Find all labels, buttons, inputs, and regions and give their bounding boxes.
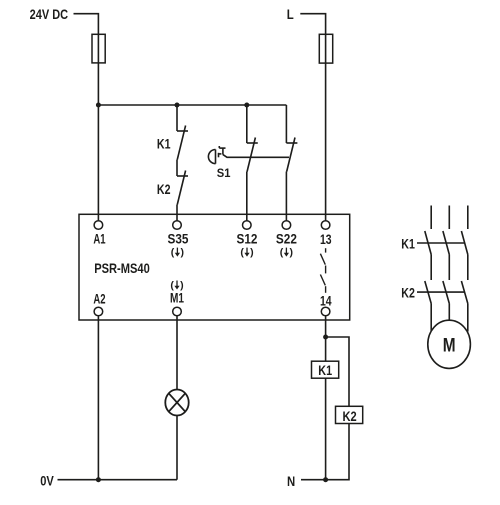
phase line L2 middle [448,255,450,281]
junction node at S35 branch [175,103,180,108]
svg-text:A2: A2 [93,292,105,307]
mechanical link S1 to contacts [223,155,289,158]
wire bus corner to contact S1.2 [285,105,287,143]
svg-text:A1: A1 [93,232,105,247]
svg-text:M: M [443,335,456,357]
wire bus to contact K1 [176,105,178,131]
fuse F1 (24V line) [92,34,105,63]
phase line L1 to motor [430,304,432,332]
terminal M1 [173,307,182,316]
phase line L3 to motor [467,304,469,332]
terminal S22 [282,221,291,230]
wire K2 coil to N bus [326,424,349,480]
junction node at A1 drop [96,103,101,108]
contactor contact K1 phase 1 [425,231,431,255]
wire L to terminal 13 (vertical drop) [300,14,325,221]
contactor contact K2 phase 2 [443,281,449,304]
terminal 14 [321,307,330,316]
fuse F2 (L line) [319,34,332,63]
svg-text:K1: K1 [157,136,171,151]
svg-text:13: 13 [320,232,332,247]
wire 24V horizontal bus [98,104,286,106]
pushbutton S1 (mushroom head actuator) [208,146,225,164]
contact K2 (NO feedback contact) [177,171,188,205]
svg-text:M1: M1 [170,290,184,305]
wire 24V DC to A1 (vertical drop) [74,14,99,221]
terminal 13 [321,221,330,230]
svg-text:K1: K1 [318,363,332,378]
contact K1 (NO feedback contact) [177,126,188,160]
wire 0V bus [58,479,178,481]
phase line L3 upper [467,206,469,230]
terminal A2 [94,307,103,316]
svg-text:(: ( [240,247,244,259]
svg-text:K2: K2 [157,182,171,197]
svg-text:14: 14 [320,293,332,308]
svg-text:N: N [287,474,295,489]
wire S1.1 to terminal S12 [246,172,248,221]
svg-text:S12: S12 [237,232,258,247]
svg-text:PSR-MS40: PSR-MS40 [94,261,150,276]
reset symbol above M1 [170,280,183,292]
contact S1.2 (E-stop NC channel 2) [286,138,297,172]
svg-text:S35: S35 [168,232,189,247]
safety relay body PSR-MS40 [79,214,350,320]
svg-text:): ) [181,247,185,259]
internal safety output contacts 13-14 [320,248,325,293]
coil K2 [336,406,363,423]
wire K1 coil to N bus [325,378,327,480]
wire branch to K2 coil [326,337,349,406]
contactor contact K2 phase 1 [425,281,431,304]
coil K1 [312,361,339,378]
motor M [428,320,471,368]
svg-text:K2: K2 [343,409,357,424]
svg-text:(: ( [280,247,284,259]
svg-text:K1: K1 [401,236,415,251]
contactor contact K2 phase 3 [461,281,467,304]
svg-text:24V DC: 24V DC [30,7,69,22]
contact S1.1 (E-stop NC channel 1) [247,138,258,172]
phase line L1 upper [430,206,432,230]
svg-text:L: L [287,7,294,22]
contactor contact K1 phase 2 [443,231,449,255]
junction node at S12 branch [244,103,249,108]
terminal A1 [94,221,103,230]
wire between K1 and K2 contacts [176,160,178,177]
wire bus to contact S1.1 [246,105,248,143]
wire A2 to 0V bus [97,316,99,480]
phase line L3 middle [467,255,469,281]
junction node A2 at 0V bus [96,477,101,482]
terminal S12 [243,221,252,230]
wire N bus [301,479,326,481]
svg-text:): ) [290,247,294,259]
reset symbol under S22 [280,247,293,259]
wire S1.2 to terminal S22 [285,172,287,221]
svg-text:): ) [250,247,254,259]
wire M1 to lamp [176,316,178,390]
reset symbol under S35 [171,247,184,259]
indicator lamp [165,390,188,416]
svg-text:0V: 0V [40,474,54,489]
mechanical link K2 contactor [417,291,465,293]
terminal S35 [173,221,182,230]
phase line L1 middle [430,255,432,281]
reset symbol under S12 [240,247,253,259]
svg-text:K2: K2 [401,286,415,301]
phase line L2 upper [448,206,450,230]
phase line L2 to motor [448,304,450,321]
svg-text:(: ( [171,247,175,259]
junction node below 14 [323,335,328,340]
junction node K coils at N bus [323,477,328,482]
svg-text:S1: S1 [217,168,231,180]
mechanical link K1 contactor [417,242,465,244]
wire K2 contact to terminal S35 [176,205,178,221]
wire terminal 14 down [325,316,327,361]
wire lamp to 0V bus [176,416,178,480]
contactor contact K1 phase 3 [461,231,467,255]
svg-text:S22: S22 [276,232,297,247]
